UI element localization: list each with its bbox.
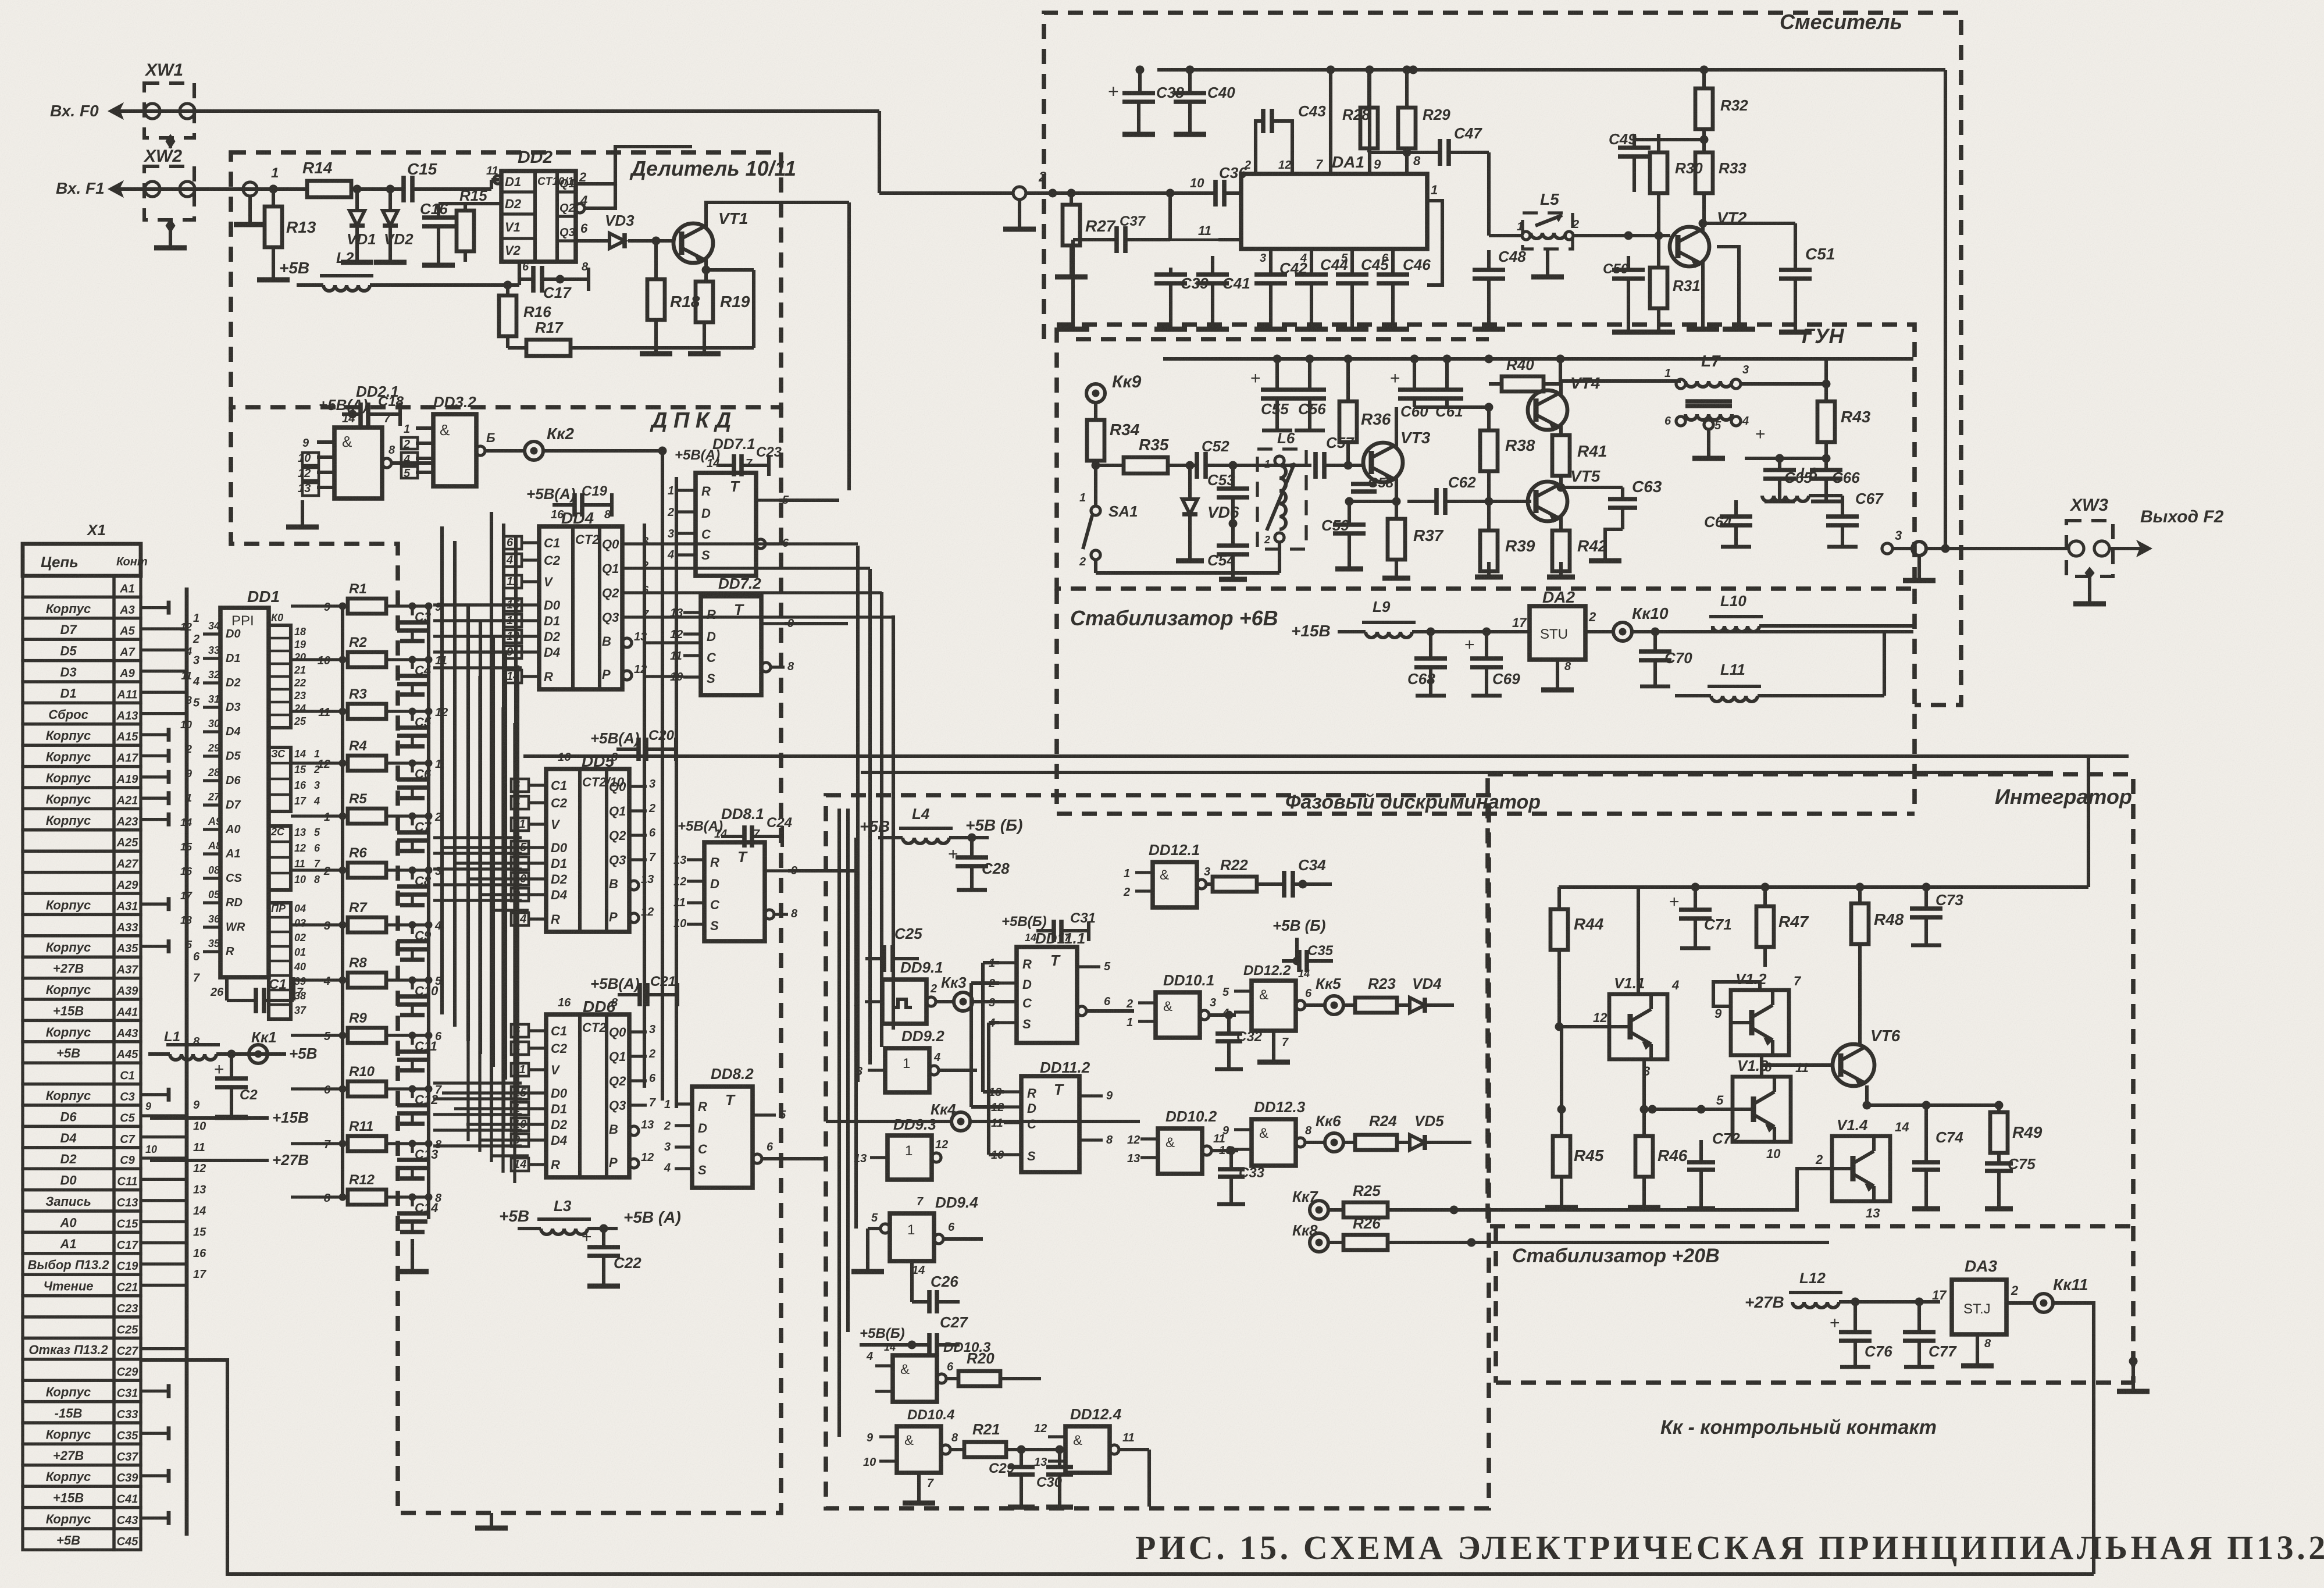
inductor L1 (148, 1029, 273, 1060)
capacitor C33 (1217, 1151, 1265, 1204)
connector XW2 (143, 147, 195, 248)
capacitor C74 (1912, 1105, 1963, 1209)
capacitor C40 (1174, 66, 1235, 134)
capacitor C62 (1396, 473, 1489, 515)
resistor R3 (314, 686, 432, 719)
resistor R16 (499, 281, 551, 348)
power +5В(А) C23 (675, 444, 782, 476)
IC DA1 (1241, 153, 1427, 249)
diode VD4 (1410, 975, 1454, 1210)
wire DD12.1 loop (972, 838, 1332, 907)
resistor R25 (1343, 1182, 1751, 1217)
wire feed B (861, 771, 2053, 774)
wire VT4 collector (1561, 381, 1681, 395)
label Делитель 10/11 (629, 156, 796, 180)
diode VD2 (374, 185, 414, 262)
capacitor C47 (1407, 124, 1489, 236)
capacitor C45 (1336, 249, 1389, 329)
transistor array V1.4 (1751, 1116, 1909, 1220)
wire mid vertical A (869, 451, 977, 983)
DD1 right pin numbers (294, 626, 320, 1016)
wire VT4 base (1489, 410, 1531, 413)
ground под ДПКД (475, 1513, 508, 1528)
capacitor C65 (1745, 425, 1826, 501)
capacitor C9 (397, 920, 441, 960)
capacitor C7 (397, 811, 441, 851)
capacitor C50 (1603, 256, 1645, 332)
wire VT3 emitter (1345, 478, 1400, 505)
flipflop DD11.2 (989, 1059, 1113, 1172)
wire dd8 right (788, 869, 826, 873)
capacitor C76 (1830, 1302, 1892, 1367)
transistor array V1.2 (1713, 887, 1802, 1074)
capacitor C5 (397, 706, 448, 746)
capacitor C13 (397, 1138, 442, 1178)
resistor R8 (314, 955, 432, 988)
capacitor C4 (397, 654, 447, 695)
label +15В (1291, 622, 1331, 640)
capacitor C67 (1809, 490, 1884, 547)
wire V1.4 base (1751, 1169, 1832, 1210)
IC DD4 CT2 (504, 508, 649, 689)
wire V1.2 top (1760, 967, 1765, 982)
resistor R14 (302, 159, 404, 197)
resistor R9 (314, 1010, 432, 1043)
flipflop DD7.1 (667, 435, 789, 576)
power L4 (860, 805, 1022, 843)
connector table X1 (23, 521, 148, 1550)
inductor L8 (1742, 458, 1864, 501)
ground right bottom (2129, 1357, 2137, 1391)
gate DD9.4 (851, 1194, 983, 1277)
resistor R48 (1851, 887, 1904, 1044)
wire Кк11 right (2059, 1303, 2094, 1574)
wire mixer out right (1926, 70, 1949, 553)
caption РИС. 15 (1135, 1529, 2324, 1566)
wire fd feed v2 (846, 809, 850, 1332)
resistor R17 (508, 270, 754, 356)
capacitor C28 (948, 838, 1010, 890)
capacitor C2 (214, 1054, 258, 1117)
table pin bracket (141, 588, 187, 1536)
wire dd11 link2 (971, 983, 1004, 1107)
capacitor C68 (1407, 632, 1447, 696)
resistor R36 (1339, 359, 1391, 469)
power L3 C22 (499, 1197, 681, 1286)
wire VT2 emitter (1687, 247, 1755, 329)
wire feed B drop (2052, 772, 2054, 773)
label Выход F2 (2140, 507, 2224, 526)
wire fd feed v1 (839, 809, 890, 1437)
wire VT2 collector (1699, 219, 1795, 256)
capacitor C6 (397, 758, 441, 798)
wire L5 to VT2 (1624, 232, 1670, 256)
inductor L9 (1338, 598, 1530, 638)
transistor VT2 (1659, 209, 1747, 268)
contact Кк9 (1086, 372, 1142, 403)
wire data bus verticals (468, 660, 515, 1183)
node mixer input 2 (1003, 169, 1216, 229)
rail ГУН (1163, 355, 1913, 363)
capacitor C52 (1190, 437, 1237, 479)
resistor R46 (1628, 1059, 1688, 1208)
resistor R43 (1817, 401, 1871, 462)
wire ladder gnd (396, 1239, 429, 1272)
wire V11 V13 link (1644, 1109, 1733, 1110)
wire ladder left rail (341, 606, 344, 1197)
resistor R2 (314, 635, 432, 667)
capacitor C27 (860, 1302, 968, 1356)
resistor R45 (1545, 1027, 1652, 1208)
dashed box Стабилизатор +20В (1496, 1226, 2133, 1383)
gate DD12.1 (1123, 841, 1213, 907)
resistor R41 (1552, 425, 1607, 492)
gate DD10.2 (1127, 1108, 1238, 1174)
gate DD9.3 (854, 1116, 1004, 1180)
resistor R42 (1547, 517, 1607, 577)
contact Кк7 (1292, 1188, 1343, 1219)
capacitor C11 (397, 1030, 442, 1070)
resistor R34 (1087, 403, 1140, 465)
transistor array V1.1 (1559, 887, 1679, 1078)
capacitor C53 (1207, 465, 1249, 528)
node 3 output (1842, 496, 1902, 554)
resistor R15 (457, 187, 501, 262)
capacitor C14 (397, 1192, 442, 1232)
resistor R11 (314, 1119, 432, 1151)
resistor R10 (314, 1064, 432, 1096)
contact Кк10 (1613, 604, 1913, 641)
contact Кк6 (1316, 1112, 1355, 1152)
label Фазовый дискриминатор (1285, 791, 1541, 813)
gate DD10.4 (863, 1407, 964, 1503)
gate DD10.3 (866, 1340, 991, 1402)
inductor L11 (1675, 632, 1884, 702)
capacitor C73 (1910, 887, 1963, 945)
wire dd8.1 out long (788, 869, 856, 873)
resistor R21 (964, 1420, 1064, 1457)
wire DA1 pin1 (1427, 183, 1442, 314)
resistor R37 (1382, 501, 1444, 578)
wire VT3 collector (1395, 359, 1398, 447)
transistor VT3 (1363, 429, 1431, 483)
wire L7 top right (1735, 372, 1737, 379)
gate DD12.2 (1222, 963, 1325, 1062)
power +5В(А) C20 (590, 728, 676, 761)
transformer L7 (1664, 352, 1749, 547)
capacitor C29 (989, 1450, 1035, 1507)
wire feed A (523, 754, 2129, 758)
resistor R22 (1213, 856, 1307, 892)
wire V13 bottom (1761, 1142, 1762, 1210)
rail integrator (1559, 883, 2088, 891)
IC DD1 (180, 588, 291, 1019)
resistor R38 (1480, 407, 1535, 505)
capacitor C58 (1351, 475, 1394, 501)
switch SA1 (1079, 465, 1279, 573)
connector XW3 (2066, 496, 2152, 604)
resistor R29 (1398, 66, 1450, 152)
wire kk2 down (468, 500, 469, 541)
wire R43 top (1824, 359, 1828, 401)
gate DD9.2 (856, 983, 977, 1092)
wire Отказ (142, 1360, 2094, 1574)
wire DA1 pin9 (1366, 66, 1381, 174)
wire +15В (145, 1101, 309, 1126)
contact Кк11 (2034, 1276, 2088, 1312)
IC DD6 CT2 (511, 996, 656, 1177)
gate DD2.1 (286, 383, 433, 527)
top rail mixer (1157, 66, 1945, 74)
connector XW1 (144, 60, 195, 148)
wire R28 R29 join (1369, 148, 1421, 174)
wire dd7 right (785, 622, 826, 625)
contact Кк5 (1316, 975, 1355, 1014)
gate DD3.2 (401, 393, 523, 486)
IC DA2 (1512, 588, 1612, 690)
transistor VT1 (656, 209, 748, 264)
gate DD10.1 (1126, 971, 1236, 1038)
capacitor C42 (1254, 249, 1307, 329)
inductor L5 (1489, 190, 1628, 277)
resistor R1 (314, 581, 432, 614)
contact Кк1 (249, 1028, 317, 1063)
wire VT6 out right (1999, 954, 2129, 1303)
capacitors C60 C61 (1390, 355, 1493, 420)
wire DD2.Q1 (576, 147, 692, 184)
wire V1.3 base (1648, 1105, 1733, 1113)
power +5В(А) C21 (590, 974, 678, 1006)
dashed box ДПКД (231, 407, 781, 1513)
note Кк (1660, 1416, 1937, 1439)
flipflop DD8.1 (673, 805, 798, 941)
resistor R39 (1475, 501, 1535, 577)
dashed box Смеситель (1044, 13, 1961, 705)
wire stab out right (1913, 631, 1989, 632)
wire bus horizontals to counters (442, 605, 529, 1156)
wire DD2.Q2 (584, 184, 615, 208)
capacitor C72 (1652, 1105, 1740, 1209)
capacitor C70 (1639, 632, 1692, 686)
resistor R23 (1355, 975, 1410, 1013)
wire dd7 bus1 (774, 407, 826, 500)
node 1 (234, 165, 279, 225)
capacitor C59 (1321, 501, 1366, 569)
wire right bus horizontals (629, 544, 893, 786)
capacitor C77 (1903, 1302, 1957, 1367)
capacitor C41 (1196, 240, 1250, 329)
transistor array V1.3 (1716, 1042, 1809, 1161)
wire VT1 right (847, 202, 851, 407)
capacitor C57 (1233, 434, 1364, 479)
wire int bottom (1471, 1191, 1829, 1242)
wire right bus verticals (858, 546, 893, 1082)
capacitor C63 (1589, 478, 1662, 561)
resistor R5 (314, 791, 432, 824)
wire +27В (145, 1144, 309, 1169)
capacitor C64 (1704, 426, 1752, 547)
dashed box Стабилизатор +6В (1057, 589, 1915, 814)
wire DD2 pin6 pin8 (519, 261, 589, 279)
capacitor C12 (397, 1084, 442, 1124)
flipflop DD7.2 (670, 575, 794, 695)
wire VT6 emitter (1863, 1085, 2003, 1112)
resistor R28 (1342, 70, 1378, 152)
ground dpkd2 (2117, 1388, 2150, 1394)
wire bus v5 (514, 535, 518, 1139)
wire dd7 out long (779, 499, 839, 502)
resistor R7 (314, 900, 432, 932)
capacitor C49 (1609, 127, 1651, 192)
wire bus v6 (643, 524, 646, 1088)
capacitor C39 (1057, 240, 1209, 329)
capacitor C43 (1244, 102, 1326, 174)
dashed box ГУН (1057, 325, 1915, 589)
wire feed A drop (2088, 756, 2129, 954)
gate DD12.4 (1034, 1405, 1149, 1507)
label Вх.F1 (56, 179, 105, 197)
diode VD1 (341, 185, 376, 262)
label Смеситель (1780, 10, 1902, 34)
wire fd feed v3 (856, 838, 868, 1229)
resistor R31 (1642, 236, 1701, 332)
resistor R24 (1355, 1112, 1410, 1150)
dashed box Делитель 10/11 (231, 152, 781, 407)
label Интегратор (1995, 785, 2132, 809)
power +5В(А) C18 (319, 394, 404, 426)
capacitor C37 (1073, 193, 1241, 279)
capacitor C16 (420, 200, 465, 265)
wire V1.4 bottom (1506, 1191, 1861, 1222)
wire bus v3 (490, 512, 493, 1117)
capacitors C55 C56 (1250, 359, 1326, 430)
wire dd7.2 out long (785, 622, 848, 625)
resistor R26 (1343, 1215, 1829, 1250)
dashed box Фазовый дискриминатор (826, 795, 1489, 1508)
resistor R32 (1634, 70, 1748, 144)
flipflop DD11.1 (988, 930, 1134, 1043)
transistor VT4 (1489, 374, 1601, 431)
label Стабилизатор +6В (1070, 606, 1278, 630)
capacitor C46 (1377, 249, 1431, 329)
capacitor C48 (1473, 236, 1526, 329)
resistor R49 (1990, 1112, 2043, 1161)
label Вх.F0 (50, 102, 99, 120)
resistor R13 (257, 185, 316, 280)
contact Кк2 (525, 425, 666, 460)
inductor L6 (1257, 429, 1306, 573)
IC DA3 (1932, 1257, 2034, 1366)
contact Кк4 (826, 1101, 1140, 1131)
capacitor C15 (404, 160, 501, 202)
contact Кк3 (941, 974, 1017, 1011)
capacitor C10 (397, 975, 442, 1015)
capacitor C69 (1464, 632, 1520, 696)
wire VT1 collector (576, 198, 849, 228)
capacitor C34 (1284, 838, 1332, 898)
diode VD5 (1410, 1112, 1471, 1242)
contact Кк8 (1292, 1222, 1343, 1252)
capacitor C44 (1295, 249, 1348, 329)
resistor R20 (958, 1350, 1041, 1413)
IC DD5 CT2 (511, 751, 656, 932)
wire VT1 to DD7.1 (756, 407, 849, 490)
wire DA1 pin11 (1073, 233, 1241, 240)
wire DD4 R loop (539, 689, 638, 721)
diode VD3 (576, 212, 660, 248)
label Стабилизатор +20В (1512, 1245, 1720, 1267)
resistor R33 (1695, 140, 1746, 223)
power C31 (1001, 910, 1096, 942)
capacitor C17 (519, 266, 589, 301)
resistor R4 (314, 738, 432, 771)
IC DD2 (486, 148, 588, 262)
resistor R47 (1756, 887, 1809, 967)
wire bus v1 (661, 451, 664, 1101)
capacitor C32 (1215, 1015, 1263, 1069)
capacitor C66 (1810, 458, 1860, 501)
wire data bus horizontals (386, 605, 522, 1146)
label ГУН (1802, 324, 1844, 348)
wire dd11 link1 (983, 963, 1004, 1092)
gate DD9.1 (854, 959, 954, 1024)
table pin numbers (193, 612, 206, 1281)
capacitor C71 (1669, 887, 1732, 948)
label ДПКД (650, 408, 731, 433)
capacitor C8 (397, 865, 441, 905)
resistor R19 (688, 259, 750, 354)
capacitor C30 (1036, 1450, 1073, 1507)
wire dd11 link3 (989, 1023, 1004, 1155)
inductor L10 (1655, 592, 1913, 632)
transistor VT6 (1760, 1027, 1901, 1087)
wire ГУН output (1882, 542, 2066, 581)
capacitor C51 (1779, 245, 1835, 332)
resistor R40 (1489, 356, 1560, 407)
resistor R6 (314, 845, 432, 878)
wire bus v2 (675, 477, 678, 1108)
capacitor C38 (1108, 66, 1184, 134)
power C35 (1273, 917, 1334, 972)
capacitor C54 (1207, 524, 1249, 579)
wire Вх.F1 (108, 181, 307, 197)
capacitor C1 (210, 977, 304, 1013)
resistor R44 (1550, 887, 1604, 1031)
capacitor C25 (865, 925, 922, 995)
wire VT5 collector (1561, 486, 1623, 487)
wire kk2 long right (543, 450, 662, 451)
resistor R27 (1055, 189, 1116, 277)
power +5В(А) C24 (678, 815, 792, 848)
wire fd top entries (839, 808, 840, 809)
resistor R12 (314, 1172, 432, 1205)
inductor L12 (1789, 1269, 1940, 1308)
inductor L2 (279, 249, 519, 291)
capacitor C36 (1166, 164, 1247, 206)
gate DD12.3 (1219, 1098, 1325, 1166)
label +27В (1745, 1293, 1784, 1311)
resistor R18 (640, 241, 700, 354)
dashed box Интегратор (1488, 774, 2133, 1226)
wire L7 right (1741, 380, 1830, 401)
diode VD6 (1176, 465, 1239, 561)
wire DD1 to ladder (291, 606, 314, 1197)
flipflop DD8.2 (664, 1065, 826, 1188)
transistor VT5 (1489, 467, 1601, 522)
resistor R30 (1650, 134, 1703, 240)
wire bus left verticals (442, 526, 518, 1092)
wire Вх.F0 (108, 103, 1013, 193)
